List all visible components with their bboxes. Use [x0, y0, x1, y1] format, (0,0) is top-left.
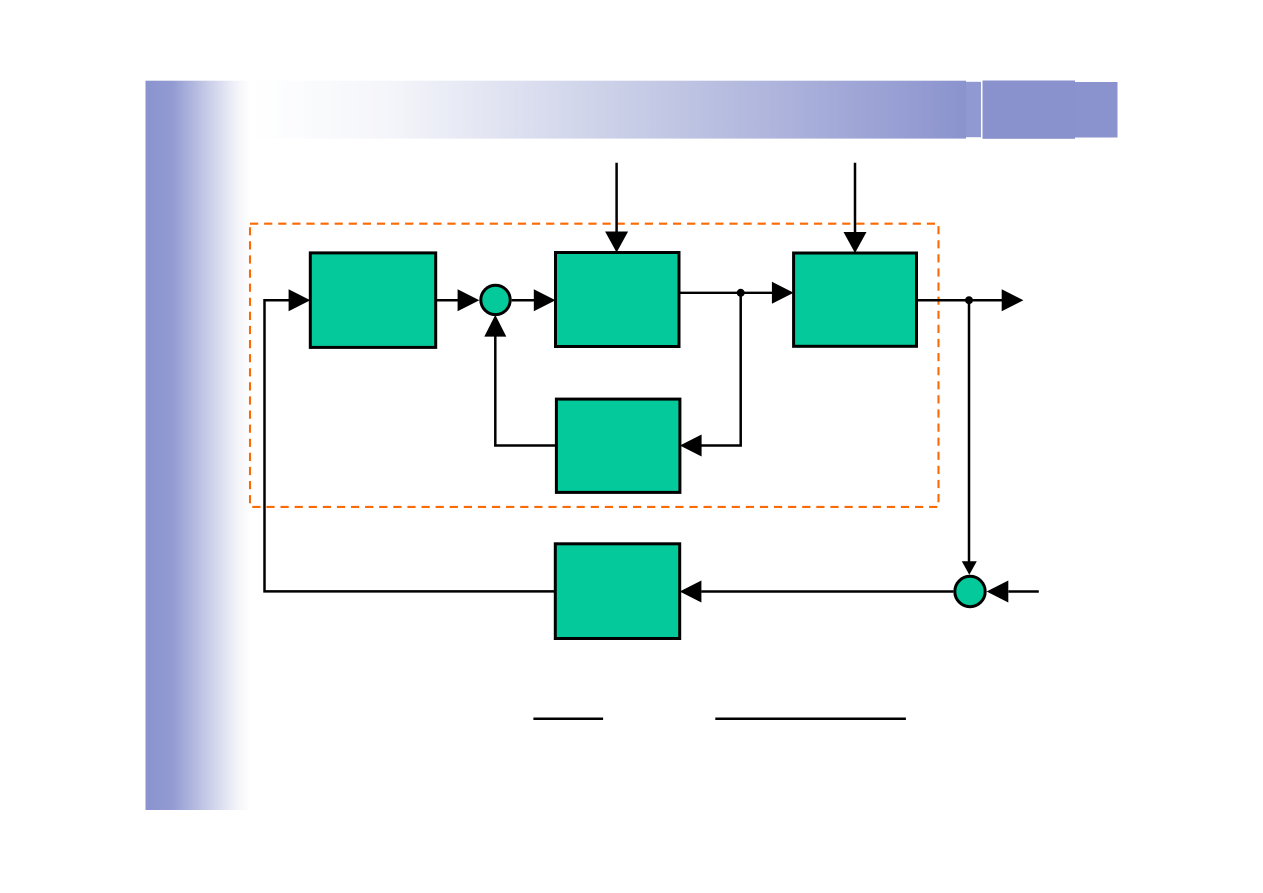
wire: right input into summing circle 2	[1009, 590, 1039, 593]
wire: summing circle 1 to block 2	[512, 299, 535, 302]
wire: junction B down to summing circle 2	[968, 300, 971, 562]
block 1	[310, 253, 435, 348]
fraction bar 1	[533, 718, 603, 721]
wire: summing circle 2 to block 5	[702, 590, 954, 593]
wire: feedback from bottom box to input (left side)	[265, 300, 557, 591]
junction dot B	[965, 296, 973, 304]
banner small segment	[966, 82, 981, 137]
dashed plant boundary	[250, 224, 939, 507]
left vertical gradient bar	[146, 81, 252, 810]
summing circle 1	[481, 285, 510, 314]
arrowhead down into block 3	[844, 232, 867, 253]
wire: block 4 out, left and up into summing circle 1	[495, 336, 556, 446]
arrowhead up into summing circle 1	[484, 315, 506, 337]
output arrowhead	[1002, 289, 1024, 311]
wire: junction A down and left into block 4	[700, 293, 741, 446]
arrowhead left into block 5	[680, 581, 702, 603]
wire: block 2 to block 3 with junction	[679, 292, 772, 294]
summing circle 2	[955, 576, 985, 606]
arrowhead into summing circle 1	[458, 289, 480, 311]
wire: block 3 output with junction B and output arrow	[917, 299, 1003, 302]
block 4 (feedback inside plant)	[556, 399, 680, 492]
block 2	[556, 253, 680, 347]
arrowhead into block 1	[289, 289, 311, 311]
arrowhead into block 3	[772, 282, 794, 304]
small arrowhead down into summing circle 2	[962, 561, 977, 575]
arrowhead into block 2	[534, 289, 556, 311]
arrowhead left into summing circle 2	[987, 581, 1009, 603]
top input wire into block 2	[615, 163, 618, 234]
banner right block	[983, 81, 1076, 139]
top banner gradient strip	[145, 81, 966, 139]
block 3	[794, 253, 917, 346]
junction dot A	[737, 289, 745, 297]
arrowhead down into block 2	[605, 232, 628, 253]
banner right end block	[1075, 82, 1118, 138]
fraction bar 2	[715, 718, 906, 721]
arrowhead into block 4 right side	[680, 435, 702, 457]
top input wire into block 3	[854, 163, 857, 234]
block 5 (sensor)	[555, 544, 679, 639]
wire: block1 to summing circle 1	[436, 299, 459, 302]
